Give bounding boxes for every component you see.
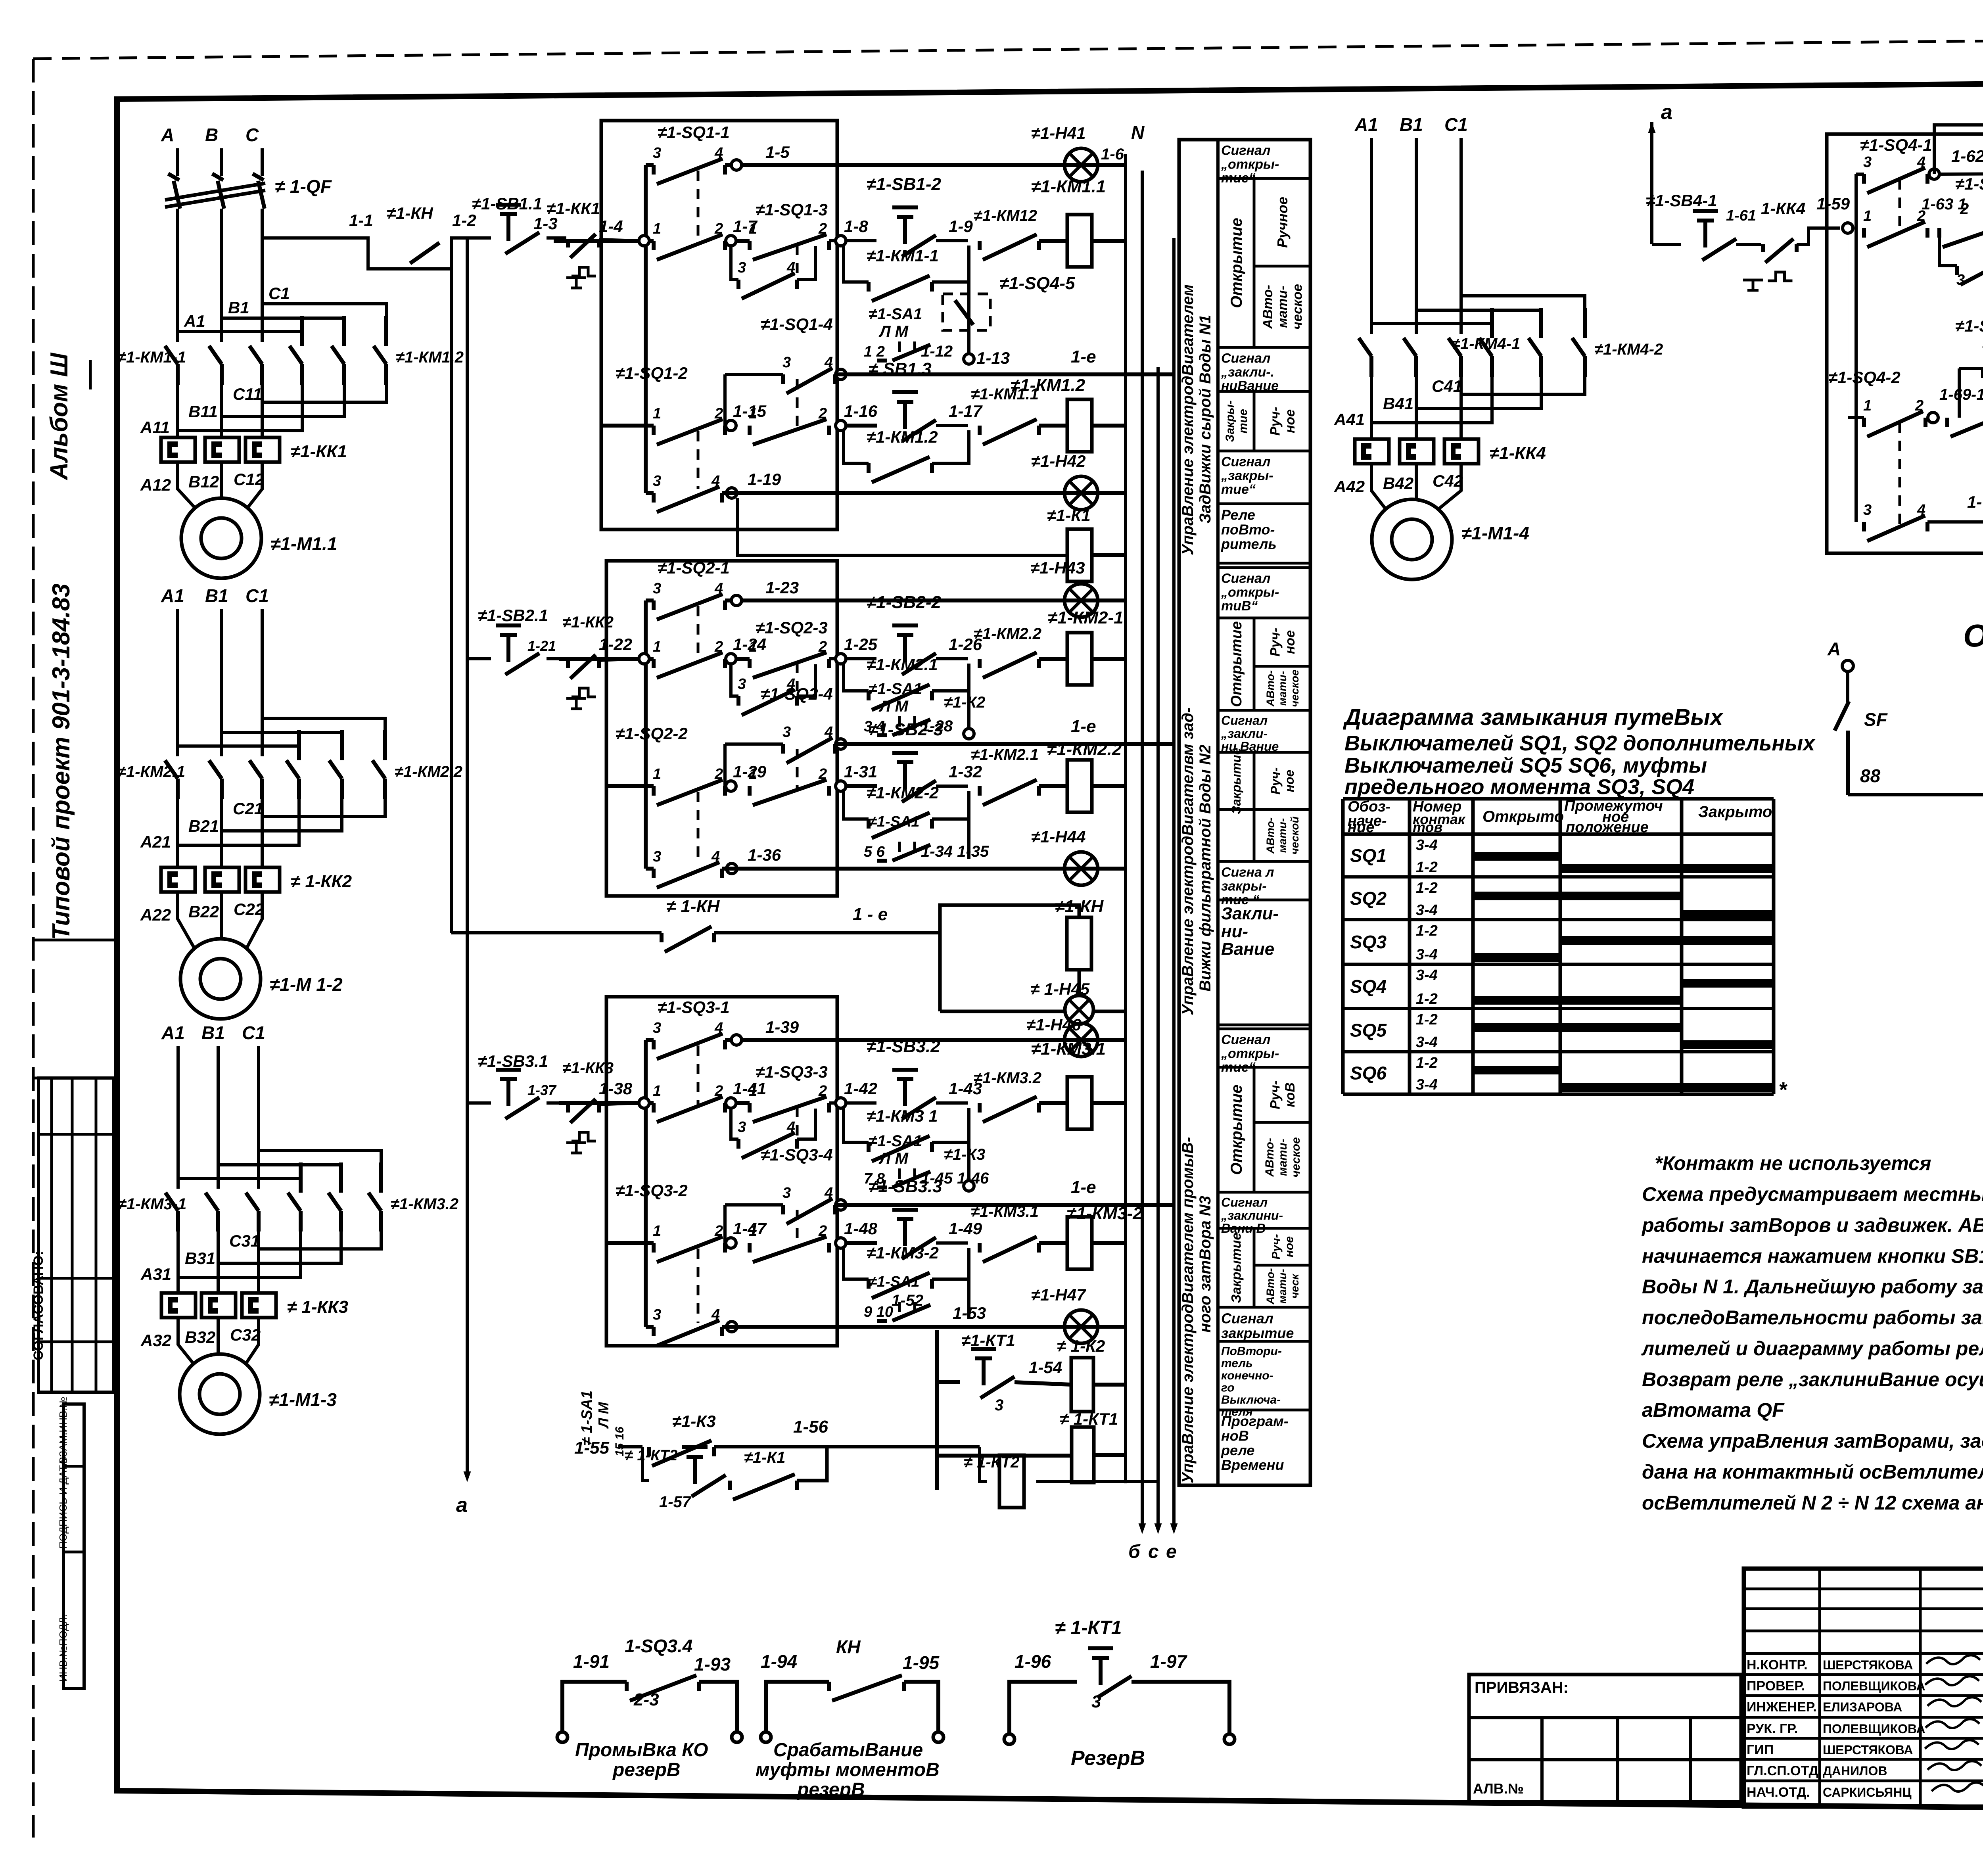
svg-text:мати-: мати- — [1276, 1269, 1289, 1304]
svg-text:Типовой проект 901-3-184.83: Типовой проект 901-3-184.83 — [48, 583, 75, 940]
wire phase verticals — [176, 209, 179, 342]
node 1-36 — [727, 863, 737, 874]
auxiliary contact 1-KH — [410, 243, 439, 263]
node 1-5 — [725, 163, 1126, 167]
svg-text:ВЗАМ.ИНВ.№: ВЗАМ.ИНВ.№ — [57, 1397, 69, 1464]
svg-text:1-5: 1-5 — [765, 143, 790, 161]
svg-text:1: 1 — [653, 639, 661, 655]
svg-text:конечно-: конечно- — [1221, 1369, 1273, 1382]
svg-text:≠1-SQ4-3: ≠1-SQ4-3 — [1955, 175, 1983, 194]
svg-text:3: 3 — [1956, 272, 1965, 288]
svg-text:Л М: Л М — [878, 323, 909, 340]
svg-text:SQ3: SQ3 — [1350, 932, 1387, 952]
pushbutton 1-SB1.1 — [467, 236, 491, 240]
relay coil 1-K2 — [1015, 1382, 1071, 1385]
svg-text:≠ 1-КК3: ≠ 1-КК3 — [287, 1297, 348, 1317]
svg-text:1-КК4: 1-КК4 — [1761, 199, 1805, 218]
svg-text:1-37: 1-37 — [527, 1082, 557, 1098]
svg-text:3-4: 3-4 — [1416, 1076, 1438, 1093]
motor ≠1-М1-3 — [180, 1354, 260, 1434]
pushbutton ≠1-SB3.2 — [892, 1070, 918, 1106]
svg-text:1-69-1: 1-69-1 — [1939, 386, 1983, 403]
svg-text:≠1-SQ3-1: ≠1-SQ3-1 — [658, 998, 730, 1017]
svg-text:ное: ное — [1283, 409, 1298, 433]
svg-text:≠1-КК3: ≠1-КК3 — [562, 1059, 614, 1077]
svg-text:≠1-SQ4-4: ≠1-SQ4-4 — [1955, 317, 1983, 336]
node 1-24 — [726, 654, 736, 664]
node 1-7 — [726, 236, 736, 246]
limit switch SQ4-4 1-2 close — [1947, 411, 1983, 437]
pushbutton 1-SB4-1 — [1652, 243, 1681, 246]
svg-text:ПромыВка КО: ПромыВка КО — [575, 1740, 708, 1761]
svg-text:1-34 1-35: 1-34 1-35 — [921, 843, 989, 860]
limit switch ≠1-SQ2-3 1-2 — [736, 657, 750, 661]
relay coil ≠1-КМ1.2 — [1039, 424, 1067, 428]
svg-text:В1: В1 — [1400, 114, 1423, 135]
lamp ≠1-Н42 — [1064, 476, 1098, 510]
svg-text:≠1-SQ1-2: ≠1-SQ1-2 — [616, 364, 688, 383]
limit switch ≠1-SQ2-2 3-4 — [646, 867, 654, 871]
svg-text:В21: В21 — [188, 817, 219, 835]
svg-text:ЗадВижки сырой Воды N1: ЗадВижки сырой Воды N1 — [1197, 315, 1214, 524]
relay coil 1-KT1 — [937, 1454, 1071, 1458]
pushbutton ≠1-SB1-2 — [892, 207, 918, 244]
svg-text:≠ 1-Н45: ≠ 1-Н45 — [1030, 980, 1090, 998]
wire block left riser — [644, 600, 648, 869]
wire phase verticals — [176, 1046, 180, 1189]
svg-text:1-39: 1-39 — [765, 1018, 799, 1036]
svg-text:≠1-SQ2-2: ≠1-SQ2-2 — [616, 724, 688, 743]
svg-text:В31: В31 — [185, 1249, 215, 1268]
svg-text:1-е: 1-е — [1071, 347, 1096, 366]
svg-text:Сигнал: Сигнал — [1221, 351, 1270, 366]
seal-in contact ≠1-КМ1.2 — [844, 430, 869, 463]
svg-text:В1: В1 — [228, 298, 249, 317]
svg-text:закры-: закры- — [1221, 879, 1267, 894]
svg-text:≠1-SB2.1: ≠1-SB2.1 — [478, 606, 548, 625]
svg-text:≠1-КМ3.2: ≠1-КМ3.2 — [974, 1069, 1041, 1087]
svg-text:СрабатыВание: СрабатыВание — [773, 1740, 923, 1761]
limit switch ≠1-SQ3-1 1-2 — [654, 1097, 725, 1122]
svg-text:„откры-: „откры- — [1221, 1046, 1279, 1061]
vertical bus N — [1124, 154, 1127, 1483]
node 1-38 — [559, 1101, 654, 1105]
svg-text:≠1-М1-4: ≠1-М1-4 — [1461, 523, 1529, 543]
svg-text:2: 2 — [714, 1223, 723, 1239]
svg-text:3: 3 — [1091, 1692, 1101, 1711]
reserve circuit KT1 — [1004, 1734, 1015, 1744]
svg-text:1-1: 1-1 — [349, 211, 373, 230]
svg-text:осВетлителей N 2 ÷ N 12 схе: осВетлителей N 2 ÷ N 12 схема аналогична… — [1642, 1492, 1983, 1514]
svg-text:2: 2 — [818, 1223, 827, 1239]
SQ table grid — [1343, 797, 1774, 801]
limit switch ≠1-SQ3-2 3-4 — [646, 1325, 654, 1329]
relay coil 1-KH — [1067, 917, 1091, 970]
lamp 1-H45 — [940, 1010, 1064, 1013]
svg-text:а: а — [456, 1494, 468, 1517]
svg-text:2: 2 — [818, 221, 827, 237]
node 1-19 — [727, 488, 737, 498]
lamp ≠1-Н44 — [1064, 852, 1098, 885]
svg-text:1-48: 1-48 — [844, 1219, 878, 1238]
svg-text:„закли-.: „закли-. — [1221, 364, 1274, 380]
svg-text:В12: В12 — [188, 472, 219, 491]
svg-text:Схема упраВления затВорами,: Схема упраВления затВорами, задВижсками … — [1642, 1430, 1983, 1452]
svg-text:Руч-: Руч- — [1268, 407, 1283, 436]
svg-text:муфты моментоВ: муфты моментоВ — [756, 1759, 940, 1780]
svg-text:≠1-Н42: ≠1-Н42 — [1031, 452, 1085, 470]
svg-text:ДАНИЛОВ: ДАНИЛОВ — [1823, 1764, 1887, 1778]
svg-text:2: 2 — [818, 405, 827, 422]
svg-text:ПоВтори-: ПоВтори- — [1221, 1345, 1282, 1358]
svg-text:1-8: 1-8 — [844, 217, 868, 236]
svg-text:3: 3 — [782, 724, 791, 740]
relay coil ≠1-КМ2.2 — [1039, 784, 1067, 788]
svg-text:≠ 1-QF: ≠ 1-QF — [275, 176, 332, 197]
svg-text:Сигнал: Сигнал — [1221, 143, 1270, 158]
svg-text:≠1-КК4: ≠1-КК4 — [1490, 443, 1546, 463]
svg-text:1-32: 1-32 — [949, 762, 982, 781]
svg-text:≠1-КМ2.1: ≠1-КМ2.1 — [971, 746, 1039, 763]
svg-text:реле: реле — [1221, 1442, 1254, 1458]
svg-text:4: 4 — [714, 1020, 723, 1036]
svg-text:В1: В1 — [201, 1022, 225, 1043]
svg-text:Открытие: Открытие — [1228, 621, 1245, 707]
svg-text:4: 4 — [824, 354, 833, 371]
lamp ≠1-Н43 — [1064, 584, 1098, 617]
wire long vertical a-line — [466, 238, 469, 1475]
svg-text:≠1-SA1: ≠1-SA1 — [869, 680, 922, 698]
block outline zadvizhka N1 — [601, 121, 837, 529]
svg-text:SQ2: SQ2 — [1350, 888, 1387, 909]
svg-text:1: 1 — [749, 1083, 757, 1099]
thermal contact 1-KK4 — [1736, 243, 1761, 246]
svg-text:дана на контактный осВетлит: дана на контактный осВетлитель N 1, а дл… — [1642, 1461, 1983, 1483]
svg-text:≠1-SB3.2: ≠1-SB3.2 — [867, 1037, 940, 1056]
svg-text:поВто-: поВто- — [1221, 521, 1275, 537]
wire supply stubs — [176, 148, 179, 176]
motor ≠1-М1.1 — [181, 498, 261, 578]
svg-text:ШЕРСТЯКОВА: ШЕРСТЯКОВА — [1823, 1743, 1913, 1757]
svg-text:е: е — [1166, 1541, 1177, 1562]
svg-text:1-16: 1-16 — [844, 402, 878, 420]
timer coil 1-KT2 — [980, 1447, 987, 1481]
svg-text:Руч-: Руч- — [1268, 767, 1283, 794]
wire leads to motor — [1371, 464, 1387, 510]
svg-text:ПОЛЕВЩИКОВА: ПОЛЕВЩИКОВА — [1823, 1679, 1925, 1693]
svg-text:ЕЛИЗАРОВА: ЕЛИЗАРОВА — [1823, 1700, 1902, 1714]
svg-text:≠1-КМ1-1: ≠1-КМ1-1 — [117, 349, 186, 366]
svg-text:1-52: 1-52 — [892, 1292, 923, 1309]
thermal contact 1-KK1 — [547, 236, 566, 240]
svg-text:Сигна л: Сигна л — [1221, 865, 1274, 880]
contactor aux contact ≠1-КМ2.2 — [980, 652, 1039, 678]
svg-text:ПРИВЯЗАН:: ПРИВЯЗАН: — [1475, 1679, 1569, 1696]
svg-text:А: А — [1827, 639, 1841, 659]
svg-text:А31: А31 — [140, 1265, 171, 1283]
svg-text:≠1-КМ1.1: ≠1-КМ1.1 — [1031, 177, 1106, 196]
svg-text:1: 1 — [749, 766, 757, 783]
svg-text:3: 3 — [738, 259, 746, 276]
svg-text:1-97: 1-97 — [1150, 1651, 1187, 1672]
svg-text:5 6: 5 6 — [864, 844, 885, 860]
wire 1-53 branch vertical — [935, 1330, 939, 1490]
svg-text:≠ 1-SA1: ≠ 1-SA1 — [579, 1391, 595, 1446]
svg-text:Общие цепи: Общие цепи — [1963, 618, 1983, 653]
svg-text:ние: ние — [1348, 819, 1374, 836]
svg-text:3: 3 — [653, 1306, 661, 1323]
soglasovano stamp box — [38, 1078, 113, 1392]
contactor contacts ≠1-КМ1-1 — [165, 346, 178, 385]
vertical bus c — [1156, 367, 1160, 1527]
svg-text:ческ: ческ — [1289, 1273, 1301, 1299]
svg-text:≠1-SB4-1: ≠1-SB4-1 — [1646, 191, 1717, 210]
mid column zone N1 boxes — [1218, 140, 1310, 178]
svg-text:ПОДПИСЬ И ДАТА: ПОДПИСЬ И ДАТА — [57, 1458, 69, 1549]
wire KH coil loop — [940, 905, 1079, 1011]
SQ table bars — [1473, 852, 1560, 861]
svg-text:1-75: 1-75 — [1967, 493, 1983, 511]
svg-text:Диаграмма замыкания путеВых: Диаграмма замыкания путеВых — [1342, 704, 1724, 730]
bus arrows b c e — [1139, 1523, 1146, 1534]
limit switch 1-SQ4-1 3-4 — [1856, 173, 1864, 176]
svg-text:1-2: 1-2 — [1416, 1011, 1438, 1028]
svg-text:мати-: мати- — [1275, 286, 1290, 328]
svg-text:ного затВора N3: ного затВора N3 — [1197, 1196, 1214, 1333]
wire contactor outlet merge — [262, 799, 385, 817]
svg-text:1-96: 1-96 — [1015, 1651, 1051, 1672]
svg-text:С12: С12 — [234, 470, 264, 489]
svg-text:Руч-: Руч- — [1268, 1080, 1283, 1109]
svg-text:1: 1 — [653, 766, 661, 783]
svg-text:2: 2 — [818, 639, 827, 655]
svg-text:≠1-SA1: ≠1-SA1 — [869, 813, 920, 830]
svg-text:„откры-: „откры- — [1221, 585, 1279, 600]
svg-text:≠1-SB2-3: ≠1-SB2-3 — [869, 720, 943, 739]
svg-text:Времени: Времени — [1221, 1457, 1284, 1473]
svg-text:SQ4: SQ4 — [1350, 976, 1387, 997]
svg-text:4: 4 — [824, 1185, 833, 1201]
node — [967, 691, 970, 734]
svg-text:Вание: Вание — [1221, 940, 1274, 959]
svg-text:А22: А22 — [140, 905, 171, 924]
seal-in contact ≠1-КМ3-2 — [844, 1248, 869, 1279]
svg-text:ритель: ритель — [1221, 536, 1277, 552]
block outline zadvizhka N2 — [606, 561, 837, 896]
svg-text:Открытие: Открытие — [1228, 218, 1245, 308]
thermal relay ≠ 1-КК2 — [161, 867, 195, 892]
limit switch ≠1-SQ2-4 3-4 — [725, 600, 725, 744]
node 1-4 — [554, 239, 654, 243]
svg-text:≠1-Н41: ≠1-Н41 — [1031, 124, 1085, 142]
svg-text:Возврат реле „заклиниВание: Возврат реле „заклиниВание осущестВляетс… — [1642, 1368, 1983, 1391]
node 1-47 — [726, 1238, 736, 1248]
svg-text:Сигнал: Сигнал — [1221, 455, 1270, 470]
svg-text:≠1-КК1: ≠1-КК1 — [291, 442, 347, 461]
svg-text:Сигнал: Сигнал — [1221, 1195, 1268, 1210]
svg-text:лителей и диаграмму работы р: лителей и диаграмму работы реле Времени … — [1641, 1337, 1983, 1360]
privyazan box — [1469, 1675, 1741, 1802]
svg-text:Реле: Реле — [1221, 507, 1255, 523]
contactor aux contact ≠1-КМ1.1 — [980, 419, 1039, 445]
limit switch ≠1-SQ2-1 3-4 — [646, 598, 654, 602]
contactor contacts ≠1-КМ3-1 — [165, 1193, 178, 1231]
svg-text:РезерВ: РезерВ — [1071, 1747, 1145, 1770]
svg-text:3-4: 3-4 — [1416, 946, 1438, 963]
svg-text:2: 2 — [1915, 397, 1924, 414]
contactor contacts ≠1-КМ3.2 — [288, 1162, 301, 1231]
svg-text:4: 4 — [1917, 154, 1925, 171]
svg-text:ни-: ни- — [1221, 922, 1248, 941]
title block main frame — [1744, 1569, 1983, 1807]
relay coil ≠1-КМ3-2 — [1039, 1241, 1067, 1245]
svg-text:В: В — [205, 125, 218, 145]
pushbutton ≠1-SB3.1 — [467, 1101, 491, 1105]
svg-text:*: * — [1778, 1078, 1788, 1102]
reserve circuit SQ3.4 — [557, 1732, 568, 1742]
svg-text:≠1-Н43: ≠1-Н43 — [1030, 558, 1085, 577]
svg-text:Схема предусматривает местны: Схема предусматривает местный и аВтомати… — [1642, 1183, 1983, 1205]
svg-text:≠1-SQ2-3: ≠1-SQ2-3 — [756, 618, 828, 637]
svg-text:1-53: 1-53 — [953, 1304, 986, 1322]
svg-text:Открыто: Открыто — [1482, 808, 1564, 825]
svg-text:1: 1 — [1863, 208, 1872, 224]
svg-text:С1: С1 — [242, 1022, 265, 1043]
svg-text:≠1-Н44: ≠1-Н44 — [1031, 827, 1085, 846]
svg-text:б: б — [1128, 1541, 1141, 1562]
svg-text:АВто-: АВто- — [1264, 817, 1276, 854]
seal-in contact ≠1-КМ2-2 — [844, 791, 869, 819]
svg-text:1-22: 1-22 — [599, 635, 632, 654]
contactor contacts ≠1-КМ2.2 — [286, 730, 299, 799]
vertical bus b — [1141, 171, 1144, 1527]
svg-text:1: 1 — [653, 1083, 661, 1099]
svg-text:аВтомата QF: аВтомата QF — [1642, 1399, 1785, 1421]
motor ≠1-М1-4 — [1372, 499, 1452, 579]
svg-text:предельного момента SQ3, SQ4: предельного момента SQ3, SQ4 — [1344, 775, 1694, 799]
svg-text:4: 4 — [824, 724, 833, 740]
switch SF — [1846, 671, 1849, 702]
svg-text:НАЧ.ОТД.: НАЧ.ОТД. — [1747, 1785, 1810, 1800]
limit switch 1-SQ4-2 1-2 — [1848, 416, 1864, 419]
svg-text:1-36: 1-36 — [748, 846, 781, 864]
wire crossover links — [1371, 308, 1492, 324]
node 1-23 — [725, 598, 1126, 602]
block outline zatvor N3 — [606, 997, 837, 1346]
svg-text:2-3: 2-3 — [633, 1690, 659, 1709]
svg-text:3: 3 — [653, 473, 661, 489]
svg-text:1-2: 1-2 — [1416, 880, 1438, 896]
svg-text:В41: В41 — [1383, 394, 1413, 413]
svg-text:Закли-: Закли- — [1221, 904, 1279, 923]
svg-text:≠1-SQ4-5: ≠1-SQ4-5 — [999, 274, 1075, 293]
svg-text:4: 4 — [711, 848, 720, 865]
svg-text:SQ6: SQ6 — [1350, 1063, 1387, 1084]
svg-text:ПОЛЕВЩИКОВА: ПОЛЕВЩИКОВА — [1823, 1722, 1925, 1736]
node 1-13 — [967, 282, 970, 359]
arrow a up right section — [1650, 122, 1653, 244]
svg-text:≠1-КМ2-2: ≠1-КМ2-2 — [867, 783, 939, 802]
svg-text:АЛВ.№: АЛВ.№ — [1473, 1780, 1524, 1797]
svg-text:≠1-КМ3.1: ≠1-КМ3.1 — [1031, 1039, 1106, 1059]
svg-text:ГЛ.СП.ОТД: ГЛ.СП.ОТД — [1747, 1763, 1818, 1778]
svg-text:Л М: Л М — [595, 1402, 612, 1429]
svg-text:АВто-: АВто- — [1260, 285, 1275, 329]
inventory stamp boxes — [63, 1404, 84, 1688]
contactor contacts ≠1-КМ4-1 — [1359, 338, 1371, 377]
svg-text:В1: В1 — [205, 585, 228, 606]
node 1-53 — [727, 1322, 737, 1332]
svg-text:последоВательности работы за: последоВательности работы затВоров и зад… — [1642, 1306, 1983, 1329]
limit switch ≠1-SQ3-3 1-2 — [736, 1101, 750, 1105]
svg-text:1: 1 — [749, 221, 757, 237]
svg-text:с: с — [1148, 1541, 1159, 1562]
svg-text:≠1-КМ3.2: ≠1-КМ3.2 — [391, 1195, 458, 1213]
svg-text:САРКИСЬЯНЦ: САРКИСЬЯНЦ — [1823, 1785, 1912, 1799]
svg-text:≠1-КМ2.2: ≠1-КМ2.2 — [974, 625, 1041, 643]
node 1-69-1 — [1928, 412, 1938, 423]
svg-text:≠1-SQ3-3: ≠1-SQ3-3 — [756, 1063, 828, 1082]
limit switch ≠1-SQ1-1 1-2 — [654, 234, 725, 260]
pushbutton ≠1-SB2-3 — [846, 784, 877, 788]
title block signature grid — [1744, 1588, 1983, 1590]
left column dividers — [33, 939, 117, 942]
node 1-e zatvor N3 — [836, 1200, 846, 1210]
svg-text:1: 1 — [749, 639, 757, 655]
svg-text:А11: А11 — [140, 418, 170, 437]
svg-text:С31: С31 — [229, 1231, 260, 1250]
svg-text:≠1-SB2-2: ≠1-SB2-2 — [867, 593, 942, 612]
left column inner line — [115, 99, 120, 1791]
seal-in contact ≠1-КМ3 1 — [844, 1108, 869, 1142]
node 1-e zadvizhka N2 — [836, 739, 846, 749]
svg-text:2: 2 — [818, 1083, 827, 1099]
relay contact 1-K1 lower — [730, 1474, 797, 1500]
svg-text:Выключателей SQ1, SQ2 дополни: Выключателей SQ1, SQ2 дополнительных — [1344, 731, 1816, 755]
node 1-62 — [1929, 169, 1939, 179]
svg-text:Л М: Л М — [878, 698, 909, 715]
svg-text:ГИП: ГИП — [1747, 1742, 1774, 1757]
svg-text:≠1-SQ1-4: ≠1-SQ1-4 — [761, 315, 833, 334]
svg-text:≠1-К1: ≠1-К1 — [1047, 506, 1091, 525]
svg-text:≠1-К3: ≠1-К3 — [944, 1146, 985, 1163]
svg-text:Закрытие: Закрытие — [1229, 1233, 1244, 1303]
svg-text:≠1-К1: ≠1-К1 — [744, 1449, 785, 1466]
pushbutton ≠1-SB2.1 — [467, 657, 491, 660]
svg-text:3: 3 — [653, 1020, 661, 1036]
limit switch ≠1-SQ1-2 1-2 — [601, 424, 654, 428]
wire leads to motor — [178, 892, 195, 950]
svg-text:1-38: 1-38 — [599, 1079, 633, 1098]
node 1-31 — [836, 781, 846, 791]
svg-text:Руч-: Руч- — [1270, 1234, 1283, 1259]
svg-text:≠1-КМ3 1: ≠1-КМ3 1 — [867, 1107, 938, 1125]
svg-text:А1: А1 — [184, 312, 205, 330]
pushbutton ≠ SB1.3 — [846, 424, 877, 428]
thermal contact ≠1-КК3 — [547, 1101, 566, 1105]
svg-text:≠1-М1-3: ≠1-М1-3 — [269, 1389, 337, 1410]
svg-text:≠1-КН: ≠1-КН — [1055, 897, 1104, 916]
svg-text:SF: SF — [1864, 709, 1888, 730]
svg-text:Руч-: Руч- — [1268, 628, 1283, 657]
svg-text:Н.КОНТР.: Н.КОНТР. — [1747, 1657, 1808, 1673]
svg-text:2: 2 — [714, 639, 723, 655]
svg-text:4: 4 — [714, 580, 723, 597]
svg-text:1-2: 1-2 — [452, 211, 476, 230]
svg-text:С32: С32 — [230, 1325, 261, 1344]
svg-text:1-49: 1-49 — [949, 1219, 982, 1238]
relay contact 1-K3 — [649, 1441, 714, 1466]
